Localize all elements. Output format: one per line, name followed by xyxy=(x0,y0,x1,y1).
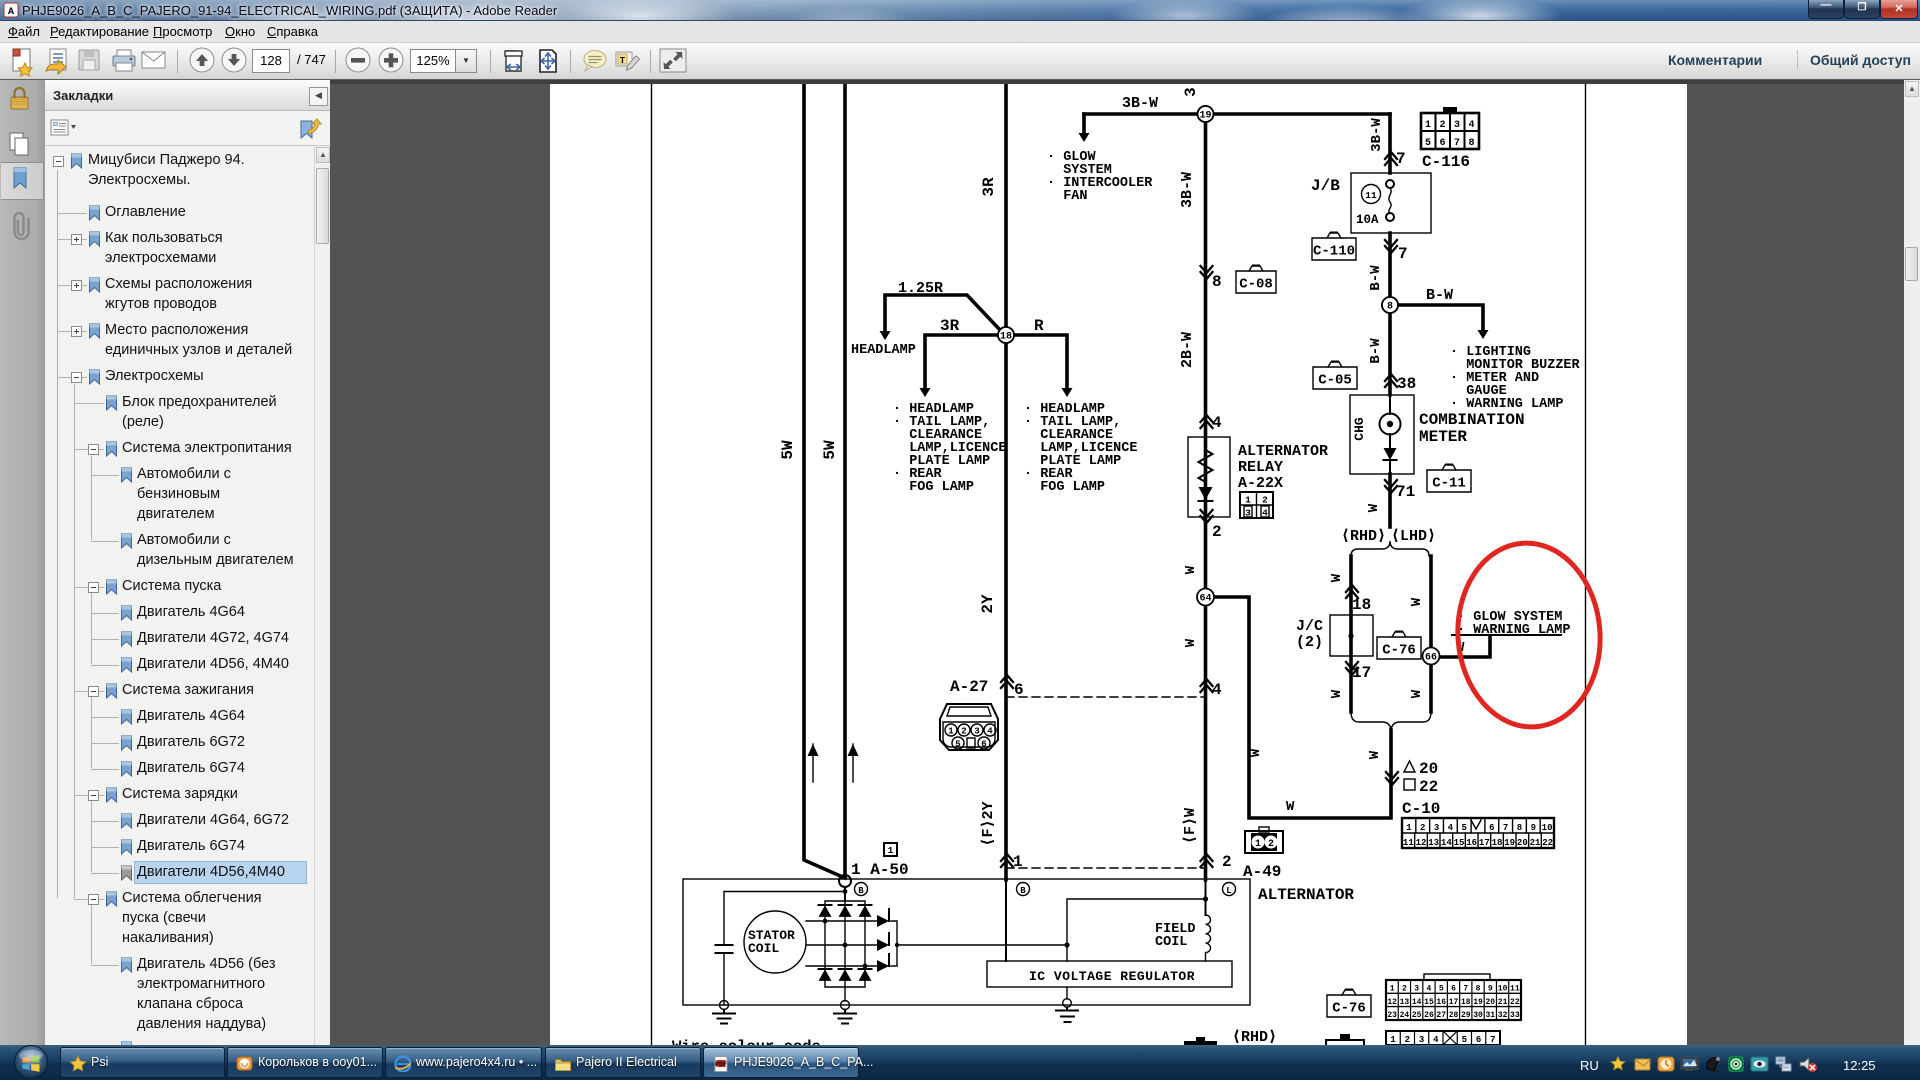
svg-text:· WARNING LAMP: · WARNING LAMP xyxy=(1450,397,1563,412)
svg-text:2: 2 xyxy=(1268,839,1274,850)
terminal A-50 pin 1 circle xyxy=(839,875,851,887)
svg-text:2: 2 xyxy=(1212,523,1222,541)
connector block bottom clipped xyxy=(1386,1031,1500,1045)
svg-text:66: 66 xyxy=(1425,653,1437,664)
svg-text:COIL: COIL xyxy=(1155,935,1187,950)
svg-text:3: 3 xyxy=(1182,87,1200,97)
node 66 redraw xyxy=(1423,728,1440,745)
svg-text:J/B: J/B xyxy=(1311,177,1340,195)
svg-text:25: 25 xyxy=(1412,1011,1422,1020)
svg-text:27: 27 xyxy=(1436,1011,1446,1020)
wire 3B-W top horizontal xyxy=(1084,112,1390,116)
terminal B circled at F2Y entry xyxy=(1017,883,1030,896)
wire B-W branch to lighting monitor xyxy=(1398,305,1483,330)
svg-text:9: 9 xyxy=(1531,823,1536,833)
svg-text:A-49: A-49 xyxy=(1243,863,1281,881)
svg-text:4: 4 xyxy=(987,727,993,737)
svg-text:2: 2 xyxy=(1405,1035,1410,1045)
svg-text:C-10: C-10 xyxy=(1402,800,1440,818)
svg-text:3B-W: 3B-W xyxy=(1122,95,1158,112)
svg-text:⟨RHD⟩: ⟨RHD⟩ xyxy=(1232,1029,1277,1045)
svg-text:1: 1 xyxy=(1390,985,1395,994)
junction block J/B box xyxy=(1351,173,1431,233)
svg-text:14: 14 xyxy=(1441,838,1452,848)
diode in combination meter xyxy=(1384,448,1397,460)
node 8 redraw xyxy=(1382,340,1398,356)
A-27 pins 5-6 xyxy=(952,737,964,749)
wire 3B-W vertical to alternator relay xyxy=(1204,114,1208,597)
svg-text:7: 7 xyxy=(1454,138,1460,149)
node 8 redraw xyxy=(1382,377,1398,393)
svg-text:B-W: B-W xyxy=(1368,338,1384,364)
svg-text:⟨F⟩W: ⟨F⟩W xyxy=(1182,808,1199,844)
svg-text:4: 4 xyxy=(1433,1035,1439,1045)
svg-text:4: 4 xyxy=(1212,681,1222,699)
svg-text:C-116: C-116 xyxy=(1422,153,1470,171)
connector flag C-76 bottom xyxy=(1327,995,1371,1017)
joint connector J/C(2) box xyxy=(1330,615,1373,656)
connector crossing chevrons C-08 xyxy=(1201,266,1213,279)
node 19 redraw xyxy=(1198,106,1214,122)
trio diode output bus xyxy=(891,921,1067,966)
svg-text:28: 28 xyxy=(1449,1011,1459,1020)
connector flag C-05 xyxy=(1313,367,1357,389)
svg-text:3R: 3R xyxy=(940,317,960,335)
node 19 redraw xyxy=(1198,186,1214,202)
chevrons below J/B xyxy=(1385,240,1397,253)
svg-text:8: 8 xyxy=(1517,823,1522,833)
svg-text:1: 1 xyxy=(1406,823,1412,833)
svg-text:Wire colour code: Wire colour code xyxy=(672,1038,821,1045)
trio diodes to lamp xyxy=(877,915,889,927)
svg-text:W: W xyxy=(1366,503,1382,512)
svg-text:18: 18 xyxy=(1000,332,1012,343)
svg-text:5: 5 xyxy=(955,740,960,750)
fuse 11 circled xyxy=(1362,185,1381,204)
svg-text:C-05: C-05 xyxy=(1318,373,1352,389)
svg-text:6: 6 xyxy=(1451,985,1456,994)
svg-text:2: 2 xyxy=(961,727,966,737)
svg-text:2: 2 xyxy=(1420,823,1425,833)
svg-text:10: 10 xyxy=(1498,985,1508,994)
connector C-76 33pin block xyxy=(1386,980,1521,1020)
svg-text:R: R xyxy=(1034,317,1044,335)
svg-text:3B-W: 3B-W xyxy=(1369,118,1385,152)
svg-text:21: 21 xyxy=(1498,998,1508,1007)
wire 3B-W drop at right xyxy=(1388,114,1392,173)
brace merge lower xyxy=(1351,712,1431,732)
chevrons below meter xyxy=(1385,480,1397,493)
wire 3R (vertical bus) xyxy=(1004,84,1008,335)
wire from A-50 into rectifier xyxy=(844,887,846,901)
direction arrow on wire 5W #1 xyxy=(812,744,814,782)
svg-text:8: 8 xyxy=(1468,138,1474,149)
svg-text:W: W xyxy=(1329,689,1345,698)
chevron at pin 18 xyxy=(1346,585,1358,598)
svg-text:6: 6 xyxy=(1476,1035,1481,1045)
svg-text:8: 8 xyxy=(1212,273,1222,291)
svg-text:5: 5 xyxy=(1425,138,1431,149)
svg-text:21: 21 xyxy=(1530,838,1541,848)
alternator box xyxy=(683,879,1250,1005)
diagram frame left border xyxy=(651,84,653,1045)
Adobe Reader window xyxy=(0,0,1920,21)
svg-text:COMBINATION: COMBINATION xyxy=(1419,411,1525,429)
diode inside alternator relay xyxy=(1199,487,1213,500)
svg-text:1: 1 xyxy=(1390,1035,1396,1045)
svg-text:PDF: PDF xyxy=(715,1061,727,1068)
svg-text:CHG: CHG xyxy=(1352,417,1367,441)
rectifier top diodes xyxy=(819,904,832,906)
IC voltage regulator box xyxy=(987,961,1232,987)
svg-text:11: 11 xyxy=(1510,985,1520,994)
connector A-22X pin grid xyxy=(1240,492,1273,518)
connector C-116 block xyxy=(1421,113,1479,149)
svg-text:5W: 5W xyxy=(821,440,839,460)
wire W LHD branch xyxy=(1429,556,1433,712)
chevrons at A-27 pin 4 xyxy=(1201,679,1213,692)
svg-text:18: 18 xyxy=(1461,998,1471,1007)
svg-text:29: 29 xyxy=(1461,1011,1471,1020)
connector flag C-76 mid xyxy=(1377,637,1421,659)
svg-text:15: 15 xyxy=(1454,838,1465,848)
svg-text:12: 12 xyxy=(1387,998,1397,1007)
svg-text:1: 1 xyxy=(1425,120,1431,131)
pdf icon in title xyxy=(3,2,19,18)
svg-text:5: 5 xyxy=(1461,823,1466,833)
svg-text:3: 3 xyxy=(1414,985,1419,994)
svg-text:13: 13 xyxy=(1400,998,1410,1007)
svg-text:33: 33 xyxy=(1510,1011,1520,1020)
dashed wire alternator pins 1-2 xyxy=(1006,867,1205,869)
svg-text:A-27: A-27 xyxy=(950,678,988,696)
A-27 pins 1-4 xyxy=(945,724,957,736)
svg-text:15: 15 xyxy=(1424,998,1434,1007)
svg-text:IC VOLTAGE REGULATOR: IC VOLTAGE REGULATOR xyxy=(1029,969,1195,984)
svg-text:2: 2 xyxy=(1262,495,1268,506)
pin marker box at A-50 xyxy=(884,843,897,856)
svg-text:5: 5 xyxy=(1439,985,1444,994)
svg-text:L: L xyxy=(1226,886,1231,896)
svg-text:W: W xyxy=(1183,638,1199,647)
svg-text:5: 5 xyxy=(1462,1035,1467,1045)
wire L terminal run xyxy=(1205,880,1207,915)
connector crossing chevrons at alternator pin 1 xyxy=(1001,854,1013,867)
ground at capacitor xyxy=(720,1001,729,1010)
svg-text:7: 7 xyxy=(1398,245,1408,263)
svg-text:3: 3 xyxy=(1434,823,1439,833)
wire 2Y (below node 18) xyxy=(1004,335,1008,880)
svg-text:W: W xyxy=(1329,573,1345,582)
wire 3R branch left xyxy=(925,335,998,388)
svg-text:7: 7 xyxy=(1490,1035,1495,1045)
svg-text:31: 31 xyxy=(1486,1011,1496,1020)
connector flag C-110 xyxy=(1312,238,1356,260)
svg-text:19: 19 xyxy=(1473,998,1483,1007)
rectifier bridge rails xyxy=(825,901,865,987)
wire F2Y inside alternator xyxy=(1005,880,1007,961)
pin marker triangle 20 xyxy=(1404,761,1415,772)
alternator relay A-22X box xyxy=(1188,437,1230,517)
wire B-W node 8 to combination meter xyxy=(1388,305,1392,395)
node 66 redraw xyxy=(1423,691,1440,708)
svg-text:4: 4 xyxy=(1427,985,1432,994)
svg-text:7: 7 xyxy=(1503,823,1508,833)
wire to capacitor xyxy=(724,892,845,946)
svg-text:2: 2 xyxy=(1222,853,1232,871)
svg-text:A: A xyxy=(8,7,14,18)
svg-text:22: 22 xyxy=(1510,998,1520,1007)
svg-text:64: 64 xyxy=(1199,594,1211,605)
terminal L circled xyxy=(1223,883,1236,896)
svg-text:2Y: 2Y xyxy=(979,594,997,614)
svg-text:23: 23 xyxy=(1387,1011,1397,1020)
chevrons into J/B xyxy=(1385,152,1397,165)
svg-text:13: 13 xyxy=(1428,838,1439,848)
svg-text:FOG LAMP: FOG LAMP xyxy=(893,480,974,495)
svg-text:W: W xyxy=(1409,689,1425,698)
node 64 redraw xyxy=(1197,589,1214,606)
svg-text:⟨F⟩2Y: ⟨F⟩2Y xyxy=(980,801,997,846)
svg-text:1 A-50: 1 A-50 xyxy=(851,861,909,879)
partial graphics at bottom edge xyxy=(1184,1041,1217,1047)
combination meter box xyxy=(1350,395,1414,474)
chevron at pin 17 xyxy=(1346,662,1358,675)
svg-text:T: T xyxy=(620,56,626,66)
svg-text:14: 14 xyxy=(1412,998,1422,1007)
svg-text:1: 1 xyxy=(888,845,894,856)
svg-text:22: 22 xyxy=(1542,838,1553,848)
Taskbar xyxy=(0,1045,1920,1080)
wire W below meter xyxy=(1388,474,1392,527)
svg-text:20: 20 xyxy=(1486,998,1496,1007)
svg-text:10: 10 xyxy=(1542,823,1553,833)
svg-text:RELAY: RELAY xyxy=(1238,459,1283,476)
svg-text:C-11: C-11 xyxy=(1432,476,1466,492)
svg-text:1: 1 xyxy=(1255,839,1261,850)
svg-text:3: 3 xyxy=(1454,120,1460,131)
svg-text:4: 4 xyxy=(1212,414,1222,432)
svg-text:2: 2 xyxy=(1402,985,1407,994)
svg-text:18: 18 xyxy=(1352,596,1371,614)
svg-text:9: 9 xyxy=(1488,985,1493,994)
pin marker square 22 xyxy=(1404,779,1415,790)
svg-text:1: 1 xyxy=(948,727,954,737)
svg-text:4: 4 xyxy=(1448,823,1454,833)
node 19 xyxy=(1198,106,1214,122)
svg-text:2B-W: 2B-W xyxy=(1179,332,1196,368)
connector flag C-08 xyxy=(1236,271,1276,293)
svg-text:38: 38 xyxy=(1397,375,1416,393)
node 8 redraw xyxy=(1382,297,1398,313)
svg-text:J/C: J/C xyxy=(1296,618,1323,635)
svg-text:B: B xyxy=(858,886,864,896)
field coil winding xyxy=(1206,915,1211,953)
svg-text:7: 7 xyxy=(1463,985,1468,994)
svg-text:10A: 10A xyxy=(1356,213,1379,227)
svg-text:B-W: B-W xyxy=(1426,287,1453,304)
svg-text:8: 8 xyxy=(1476,985,1481,994)
node 18 xyxy=(998,327,1014,343)
diagram frame right border xyxy=(1585,84,1587,1045)
chevrons at alternator pin 2 xyxy=(1201,854,1213,867)
svg-text:18: 18 xyxy=(1492,838,1503,848)
node 18 redraw xyxy=(998,327,1014,343)
svg-text:3R: 3R xyxy=(980,177,998,197)
svg-text:(2): (2) xyxy=(1296,634,1323,651)
stator coil circle xyxy=(744,911,806,973)
direction arrow on wire 5W #2 xyxy=(852,744,854,782)
svg-text:W: W xyxy=(1248,748,1264,757)
svg-text:COIL: COIL xyxy=(748,941,779,956)
fuse symbol in J/B xyxy=(1386,180,1394,188)
svg-text:17: 17 xyxy=(1479,838,1490,848)
chevrons into meter xyxy=(1385,374,1397,387)
red highlight ellipse annotation xyxy=(1452,538,1606,731)
ground at regulator xyxy=(1066,987,1068,999)
wire B-W from J/B to node 8 xyxy=(1388,233,1392,305)
svg-text:26: 26 xyxy=(1424,1011,1434,1020)
svg-text:3: 3 xyxy=(974,727,979,737)
wire 5W #1 (left bus) xyxy=(804,84,845,878)
svg-text:22: 22 xyxy=(1419,778,1438,796)
Sidebar xyxy=(0,80,45,1045)
chevrons leaving relay xyxy=(1201,510,1213,523)
Document xyxy=(330,80,1920,1045)
svg-text:FAN: FAN xyxy=(1047,189,1088,204)
svg-text:2: 2 xyxy=(1439,120,1445,131)
stator phase wires xyxy=(806,921,877,966)
svg-text:6: 6 xyxy=(1439,138,1445,149)
svg-text:17: 17 xyxy=(1449,998,1459,1007)
node 18 redraw xyxy=(998,370,1014,386)
svg-text:16: 16 xyxy=(1436,998,1446,1007)
wire W RHD branch xyxy=(1349,556,1353,712)
svg-text:8: 8 xyxy=(1387,302,1393,313)
svg-text:FOG LAMP: FOG LAMP xyxy=(1024,480,1105,495)
svg-text:W: W xyxy=(1183,565,1199,574)
svg-text:32: 32 xyxy=(1498,1011,1508,1020)
svg-text:B-W: B-W xyxy=(1368,265,1384,291)
svg-text:ALTERNATOR: ALTERNATOR xyxy=(1238,443,1328,460)
ground at rectifier xyxy=(844,987,846,1001)
svg-text:6: 6 xyxy=(1489,823,1494,833)
svg-text:C-76: C-76 xyxy=(1382,643,1416,659)
svg-text:19: 19 xyxy=(1199,111,1211,122)
node 18 redraw xyxy=(998,407,1014,423)
wire W to glow system warning lamp xyxy=(1439,636,1490,657)
svg-text:20: 20 xyxy=(1517,838,1528,848)
svg-text:⟨LHD⟩: ⟨LHD⟩ xyxy=(1391,528,1436,545)
connector A-49 xyxy=(1245,831,1283,853)
node 66 xyxy=(1423,648,1439,664)
svg-text:6: 6 xyxy=(981,740,986,750)
brace split upper xyxy=(1351,541,1429,556)
node 64 redraw xyxy=(1197,632,1214,649)
svg-text:30: 30 xyxy=(1473,1011,1483,1020)
node 8 xyxy=(1382,297,1398,313)
wire 1.25R branch xyxy=(885,295,1001,336)
charge warning lamp symbol xyxy=(1389,395,1391,448)
svg-text:C-76: C-76 xyxy=(1332,1001,1366,1017)
resistor inside alternator relay xyxy=(1199,437,1213,487)
dashed wire A-27 pins 6-4 xyxy=(1006,696,1205,698)
svg-text:3B-W: 3B-W xyxy=(1179,172,1196,208)
svg-text:W: W xyxy=(1286,799,1295,815)
node 64 xyxy=(1198,589,1214,605)
wire W from node 64 down xyxy=(1204,605,1208,880)
svg-text:1: 1 xyxy=(1245,495,1251,506)
node 64 redraw xyxy=(1197,669,1214,686)
svg-text:71: 71 xyxy=(1396,483,1415,501)
svg-text:HEADLAMP: HEADLAMP xyxy=(851,343,916,358)
rectifier bottom diodes xyxy=(819,968,832,970)
svg-text:12: 12 xyxy=(1416,838,1427,848)
connector C-10 block xyxy=(1402,818,1554,848)
svg-text:METER: METER xyxy=(1419,428,1467,446)
wire W merged to C-10 xyxy=(1213,597,1391,818)
svg-text:C-110: C-110 xyxy=(1313,244,1355,260)
chevrons entering relay xyxy=(1201,415,1213,428)
underline pointer glow warning xyxy=(1452,634,1561,636)
svg-text:C-08: C-08 xyxy=(1239,277,1273,293)
capacitor C1 xyxy=(716,944,733,946)
wire R branch right xyxy=(1014,335,1067,388)
chevrons at C-10 crossing xyxy=(1386,772,1398,785)
svg-text:11: 11 xyxy=(1365,190,1377,201)
svg-text:16: 16 xyxy=(1466,838,1477,848)
wire 5W #2 xyxy=(843,84,847,875)
svg-text:20: 20 xyxy=(1419,760,1438,778)
svg-text:ALTERNATOR: ALTERNATOR xyxy=(1258,886,1354,904)
svg-text:A-22X: A-22X xyxy=(1238,475,1283,492)
svg-text:1.25R: 1.25R xyxy=(898,280,943,297)
svg-text:W: W xyxy=(1367,750,1383,759)
connector flag C-11 xyxy=(1427,470,1471,492)
svg-text:5W: 5W xyxy=(779,440,797,460)
svg-text:24: 24 xyxy=(1400,1011,1410,1020)
svg-text:19: 19 xyxy=(1504,838,1515,848)
svg-text:11: 11 xyxy=(1403,838,1414,848)
connector A-27 housing xyxy=(940,704,998,750)
svg-text:B: B xyxy=(1020,886,1026,896)
node 19 redraw xyxy=(1198,149,1214,165)
svg-text:3: 3 xyxy=(1419,1035,1424,1045)
svg-text:4: 4 xyxy=(1468,120,1474,131)
connector crossing A-27 pin 6 chevrons xyxy=(1001,675,1013,688)
svg-text:⟨RHD⟩: ⟨RHD⟩ xyxy=(1341,528,1386,545)
svg-text:· WARNING LAMP: · WARNING LAMP xyxy=(1457,623,1570,638)
terminal B circled at pin1 xyxy=(855,883,868,896)
svg-text:W: W xyxy=(1409,597,1425,606)
arrow to glow system xyxy=(1082,114,1086,133)
node 66 redraw xyxy=(1423,648,1440,665)
